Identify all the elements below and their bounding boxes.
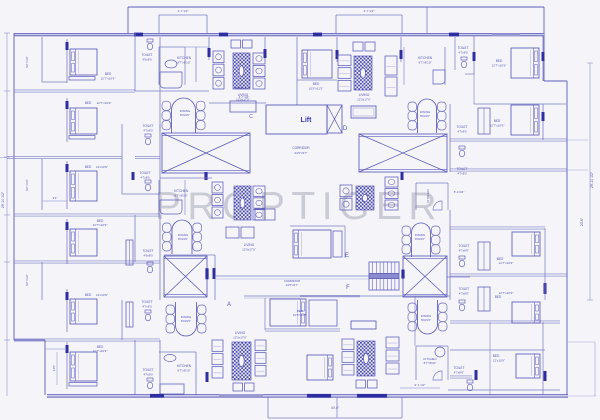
svg-text:TOILET: TOILET [458,244,469,248]
svg-text:TOILET: TOILET [453,366,464,370]
corridor label [292,146,310,155]
bed R3 label [497,257,514,265]
living C2 label [242,243,256,252]
stair X B [164,256,209,297]
rug C1 [233,53,250,89]
outer wall right [544,81,595,396]
svg-text:8'0x9'0": 8'0x9'0" [421,318,431,322]
tv twin D1 [353,42,375,51]
left wing toilet fixtures [145,39,153,389]
svg-text:4'6x8'0: 4'6x8'0 [142,58,152,62]
svg-text:9'-1 1/2": 9'-1 1/2" [415,383,426,387]
svg-text:14'0": 14'0" [52,365,56,372]
svg-text:KITCHEN: KITCHEN [426,189,430,202]
svg-text:DADO 4-7: DADO 4-7 [235,86,249,90]
bed R5 label [493,354,505,363]
svg-text:29'-10 1/2": 29'-10 1/2" [590,171,594,188]
jamb stair A-right bottom [401,172,404,180]
svg-text:8'0x9'0": 8'0x9'0" [180,113,190,117]
svg-text:LIVING: LIVING [235,331,246,335]
left wing toilet labels [139,53,153,377]
svg-text:4'6x8'0: 4'6x8'0 [143,254,153,258]
svg-text:BED: BED [85,101,92,105]
svg-text:KITCHEN: KITCHEN [177,56,192,60]
svg-text:4'7x8'0": 4'7x8'0" [459,292,469,296]
svg-text:12'0x17'0": 12'0x17'0" [357,98,371,102]
wall sofa D1 [336,37,339,62]
svg-text:BED: BED [105,72,112,76]
balcony top-right [336,9,402,35]
bed top-right-unit [302,50,332,78]
kitchen D1 [404,47,445,85]
watermark PROPTIGER [155,185,443,228]
dining B set [408,300,447,334]
wall bedroom U2 [66,98,69,142]
svg-text:TOILET: TOILET [457,46,468,50]
tv cab B [351,321,376,329]
svg-text:F: F [346,285,350,291]
dining D set [408,99,446,133]
twin B [356,380,377,388]
sofa right D1 [385,56,397,96]
living C1 label [236,93,250,102]
stair X A [162,133,250,180]
dimension line left [1,33,10,396]
chairs C2 [253,186,265,220]
dining E2 set [163,220,202,254]
svg-text:8'7"x8'10": 8'7"x8'10" [424,361,437,365]
svg-text:KITCHEN: KITCHEN [174,189,189,193]
dining A label [181,315,192,323]
svg-text:SIT OUT: SIT OUT [25,56,29,68]
bottom extension sitout [268,397,402,418]
wall bedroom U5 [66,289,69,332]
svg-text:TOILET: TOILET [142,124,153,128]
svg-text:12'0x17'0": 12'0x17'0" [242,248,256,252]
bed B [307,355,333,380]
stair X C [401,256,447,297]
bed left-wing U3 [70,171,97,201]
kitchen C1 label [177,56,192,65]
svg-text:E: E [345,253,349,259]
svg-text:4'7x8'0": 4'7x8'0" [459,249,469,253]
svg-text:8'0x9'0": 8'0x9'0" [415,237,425,241]
svg-text:8'0x9'0": 8'0x9'0" [420,114,430,118]
svg-text:10'5"x11'5": 10'5"x11'5" [309,87,324,91]
rug B [357,341,375,376]
svg-text:24'0"x6'7": 24'0"x6'7" [294,151,307,155]
dim bottom right [400,383,440,388]
svg-text:D: D [343,126,348,132]
svg-text:TOILET: TOILET [142,368,153,372]
svg-text:12'x10'9": 12'x10'9" [96,293,108,297]
dim bottom-left vertical [44,349,66,385]
wall right-wing bottom [448,228,560,395]
svg-text:KITCHEN: KITCHEN [418,56,433,60]
bed left-wing U4 [70,229,97,256]
shoe rack C [230,86,256,112]
wall mid x215 [164,255,216,300]
lift [266,105,327,134]
door jambs top wall [134,33,520,37]
svg-text:29'-10 1/2": 29'-10 1/2" [1,191,5,208]
stair small X [327,105,342,133]
svg-text:12'7"x10'9": 12'7"x10'9" [499,291,514,295]
wall bedroom U4 [66,219,69,264]
rug E [356,186,374,210]
svg-text:4'7x8'0: 4'7x8'0 [142,305,152,309]
bed top-right corner [511,48,539,78]
svg-text:KITCHEN: KITCHEN [177,364,192,368]
svg-text:BED: BED [495,295,502,299]
svg-text:8'-0 3/4": 8'-0 3/4" [454,190,465,194]
bed left-wing U5 [70,299,97,324]
main wall bottom band [47,395,596,398]
svg-text:12'x10'9": 12'x10'9" [96,165,108,169]
dining C set [162,98,205,133]
svg-text:12'7"x10'9": 12'7"x10'9" [490,124,505,128]
door jambs bottom wall [150,394,387,398]
bed left-wing U1 [70,49,97,75]
dining E2 label [178,233,189,241]
right wing toilet labels lower [453,244,469,375]
svg-text:TOILET: TOILET [458,287,469,291]
svg-text:TOILET: TOILET [139,171,150,175]
living D1 label [357,93,371,102]
corridor mid lines [216,276,470,287]
svg-text:4'-7 1/2": 4'-7 1/2" [364,9,375,13]
svg-text:4'7x8'0: 4'7x8'0 [143,129,153,133]
svg-text:4'7x8'0: 4'7x8'0 [457,130,467,134]
rug D1 [354,56,372,90]
svg-text:4'7x8'0: 4'7x8'0 [143,373,153,377]
svg-text:12'7"x10'9": 12'7"x10'9" [93,349,108,353]
left wing bed labels [85,72,116,353]
dining D label [420,110,431,118]
wall bedroom U1 [66,39,69,83]
wall living C1 [264,37,267,62]
kitchen E room [416,183,464,210]
small boxes E kitchen [340,185,352,210]
right wing walls lower [450,210,567,395]
dim left arrows [42,196,67,201]
kitchen C2 [159,178,212,215]
svg-text:TOILET: TOILET [456,167,467,171]
fridge cabinets C2 [212,182,223,218]
svg-text:TOILET: TOILET [142,249,153,253]
dining C label [180,109,191,117]
svg-text:8'7"x8'10": 8'7"x8'10" [418,61,431,65]
svg-text:40'-6": 40'-6" [331,406,339,410]
sitout partition left [25,37,67,300]
wall bedroom U6 [66,342,69,389]
svg-text:A: A [227,302,231,308]
stair flights F [369,262,399,290]
wall corridor mid right [244,295,450,298]
bed R2 label [490,119,505,128]
outer wall top [128,7,544,81]
svg-text:4'7x8'0": 4'7x8'0" [454,371,464,375]
svg-text:4'7x8'0: 4'7x8'0 [140,176,150,180]
sofa B right [386,337,399,374]
svg-text:8'0x9'0": 8'0x9'0" [181,319,191,323]
svg-text:BED: BED [313,82,320,86]
tv unit C2 [226,227,254,238]
jamb toilet U3 [132,172,135,180]
svg-text:8'7"x8'10": 8'7"x8'10" [177,369,190,373]
svg-text:PROPTIGER: PROPTIGER [155,185,443,228]
bed right R3 [512,232,540,256]
tv twin A [233,383,254,391]
svg-text:TOILET: TOILET [141,53,152,57]
stair X A-right [359,134,447,172]
wall kitchen C1 [135,37,211,91]
svg-text:SIT OUT: SIT OUT [25,274,29,286]
svg-text:Lift: Lift [301,117,313,124]
right wing wardrobes lower [478,242,490,311]
tv twin C1 [231,40,252,48]
bed R4 label [495,291,514,299]
svg-text:BED: BED [85,165,92,169]
bed right R4 [512,302,540,323]
sofa A right [255,340,266,376]
svg-text:LIVING: LIVING [244,243,255,247]
svg-text:12'7"x10'9": 12'7"x10'9" [499,261,514,265]
wardrobe C2 [255,209,275,220]
sofa stack D1 [338,55,351,91]
svg-text:12'0x17'0": 12'0x17'0" [233,336,247,340]
toilet top-right corner [457,36,475,75]
svg-text:SIT OUT: SIT OUT [25,179,29,191]
dining E set [402,223,440,257]
svg-text:TOILET: TOILET [141,300,152,304]
dresser D [351,106,376,118]
left wing unit walls [0,33,160,396]
svg-text:BED: BED [493,354,500,358]
svg-text:8'0x9'0": 8'0x9'0" [178,237,188,241]
right wing wall R2 [450,104,588,172]
sofa A left [212,340,223,378]
kitchen C1 counter [159,47,196,88]
bed right-wing R2 [511,105,539,135]
parapet top-right2 [426,7,428,35]
fridge cabinets C1 [213,51,224,89]
svg-text:24'0"x6'7": 24'0"x6'7" [286,283,299,287]
svg-text:8'7"x8'10": 8'7"x8'10" [177,61,190,65]
kitchen A [159,352,209,396]
dining B label [421,314,432,322]
svg-text:8'7"x8'10": 8'7"x8'10" [174,194,187,198]
svg-text:BED: BED [494,119,501,123]
rug A [232,342,251,380]
dimension line right [580,63,594,300]
svg-text:12'7"x10'9": 12'7"x10'9" [101,77,116,81]
svg-text:12'7"x10'9": 12'7"x10'9" [97,101,112,105]
svg-text:12'7"x10'9": 12'7"x10'9" [93,223,108,227]
balcony top-left [159,9,207,34]
svg-text:20'-6": 20'-6" [580,218,584,226]
hall wall x297 [296,37,298,105]
bed left-wing U6 [70,352,97,381]
dining A set [166,302,206,336]
svg-text:BED: BED [85,293,92,297]
svg-text:12'7"x10'9": 12'7"x10'9" [492,64,507,68]
wall bedroom U3 [66,161,69,209]
main wall top band [14,33,544,35]
kitchen B room [415,296,448,380]
svg-text:4'-7 1/2": 4'-7 1/2" [239,95,250,99]
svg-text:4'-7 1/2": 4'-7 1/2" [178,9,189,13]
living A label [233,331,247,340]
svg-text:CORRIDOR: CORRIDOR [292,146,310,150]
svg-text:TOILET: TOILET [456,125,467,129]
svg-text:12'x10'9": 12'x10'9" [493,359,505,363]
wall bed TR [542,36,545,81]
svg-text:4'7x8'0: 4'7x8'0 [458,51,468,55]
right wing toilet fixtures lower [459,256,473,391]
outer wall left [14,33,45,395]
wall D1 right [400,37,403,62]
TR unit bottom wall [297,37,566,104]
bed top-right corner label [492,59,507,68]
svg-text:C: C [249,114,253,120]
dining E label [415,233,426,241]
corridor top wall [209,102,266,104]
rug C2 [234,186,251,220]
bed top-right-unit label [309,82,324,91]
bed left-wing U2 [70,108,97,134]
bed E [290,226,345,258]
svg-text:LIVING: LIVING [359,93,370,97]
left wing wardrobes [69,77,133,387]
svg-text:10'5"x11'5": 10'5"x11'5" [293,313,307,317]
chairs C1 [253,53,265,89]
toilet E label [456,167,467,176]
bed right R5 [516,354,540,378]
sink column E [385,177,398,210]
svg-text:BED: BED [496,59,503,63]
svg-text:4'7x8'0: 4'7x8'0 [457,172,467,176]
sofa B left [342,339,354,375]
bed F [265,298,340,331]
svg-text:9'1": 9'1" [53,196,58,200]
toilet R2 [456,108,490,157]
